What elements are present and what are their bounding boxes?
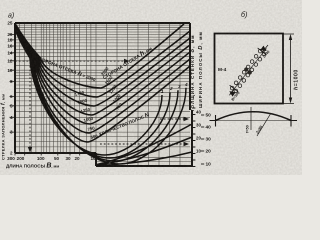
dashed guide line horizontal upper [15,60,124,62]
bowed strip arc [216,112,292,121]
curve family A: storona otseka h=2000..500 [15,23,190,142]
diagonal chain of circles [230,49,265,92]
chart frame [15,23,192,166]
right axis inner numbers [196,110,201,154]
grid horizontal lines main chart [15,23,190,147]
arc center line and f dimension [250,107,252,130]
left axis ticks [10,35,16,133]
chain middle dark circles [244,67,248,71]
right axis ticks [192,108,195,167]
dashed guide line vertical with bottom arrow [29,62,31,148]
left axis numbers [7,21,13,156]
N curve digit labels [161,82,188,94]
bottom axis ticks [15,153,80,156]
dashed guide line lower mid [160,118,184,120]
arc thickness leader delta [257,113,271,136]
arc chord line [216,120,292,122]
sub-chart horizontal lines [96,157,192,161]
grid vertical lines [19,23,180,166]
dashed guide line lower [100,143,184,145]
chain centerline [230,49,267,95]
square plate outline [215,34,284,104]
right axis outer numbers [201,113,211,168]
curve value labels left stack [74,90,99,140]
bottom axis numbers [7,156,96,161]
arc end bars [210,115,298,127]
curve family B: kolichestvo polos N deep curves [15,26,192,165]
curve value labels right stack [100,66,124,111]
chain end dimension marks [229,45,268,95]
dimension h=1000 right of square [283,34,294,104]
